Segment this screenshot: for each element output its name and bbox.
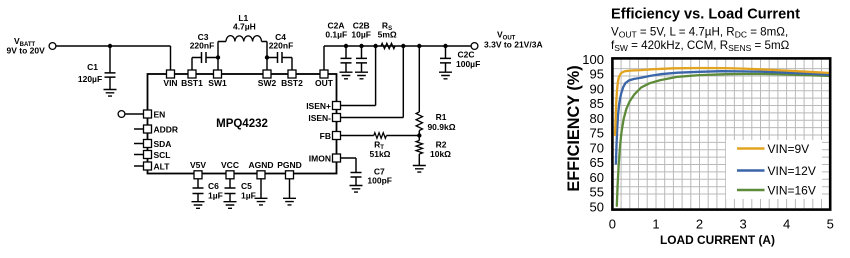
svg-text:9V to 20V: 9V to 20V	[7, 46, 46, 56]
svg-text:ISEN-: ISEN-	[308, 113, 331, 123]
svg-text:VIN=16V: VIN=16V	[768, 183, 816, 197]
svg-text:51kΩ: 51kΩ	[370, 149, 391, 159]
svg-text:0.1µF: 0.1µF	[325, 29, 347, 39]
svg-text:MPQ4232: MPQ4232	[216, 118, 268, 130]
svg-text:fSW = 420kHz, CCM, RSENS = 5mΩ: fSW = 420kHz, CCM, RSENS = 5mΩ	[611, 39, 790, 53]
svg-text:5mΩ: 5mΩ	[378, 29, 397, 39]
svg-text:EFFICIENCY (%): EFFICIENCY (%)	[565, 65, 583, 191]
svg-text:1µF: 1µF	[208, 191, 223, 201]
svg-text:220nF: 220nF	[269, 41, 294, 51]
svg-text:1: 1	[652, 217, 659, 232]
svg-text:10µF: 10µF	[351, 29, 371, 39]
svg-text:BST2: BST2	[281, 78, 303, 88]
svg-text:100µF: 100µF	[456, 59, 480, 69]
svg-text:90: 90	[590, 81, 604, 96]
svg-text:4: 4	[783, 217, 790, 232]
svg-text:75: 75	[590, 126, 604, 141]
svg-text:50: 50	[590, 199, 604, 214]
svg-text:120µF: 120µF	[78, 74, 102, 84]
svg-text:SW1: SW1	[208, 78, 227, 88]
svg-text:PGND: PGND	[277, 160, 302, 170]
svg-text:Efficiency vs. Load Current: Efficiency vs. Load Current	[611, 6, 800, 22]
svg-text:AGND: AGND	[248, 160, 273, 170]
svg-text:95: 95	[590, 67, 604, 82]
svg-text:SW2: SW2	[258, 78, 277, 88]
svg-text:OUT: OUT	[315, 78, 334, 88]
svg-text:ISEN+: ISEN+	[306, 101, 331, 111]
svg-text:10kΩ: 10kΩ	[430, 149, 451, 159]
svg-text:SDA: SDA	[154, 139, 172, 149]
svg-text:0: 0	[609, 217, 616, 232]
svg-text:EN: EN	[154, 109, 166, 119]
svg-text:70: 70	[590, 140, 604, 155]
svg-text:IMON: IMON	[309, 153, 331, 163]
svg-text:4.7µH: 4.7µH	[233, 22, 256, 32]
svg-text:FB: FB	[320, 131, 331, 141]
svg-text:R2: R2	[436, 139, 447, 149]
svg-text:C5: C5	[241, 181, 252, 191]
svg-text:VIN=9V: VIN=9V	[768, 142, 810, 156]
svg-text:VIN: VIN	[163, 78, 177, 88]
svg-text:85: 85	[590, 96, 604, 111]
svg-text:100: 100	[582, 52, 604, 67]
svg-text:VCC: VCC	[221, 160, 239, 170]
svg-text:C2C: C2C	[458, 50, 475, 60]
svg-text:100pF: 100pF	[367, 176, 392, 186]
svg-text:SCL: SCL	[154, 150, 171, 160]
svg-text:3.3V to 21V/3A: 3.3V to 21V/3A	[484, 39, 543, 49]
svg-text:3: 3	[739, 217, 746, 232]
svg-text:LOAD CURRENT (A): LOAD CURRENT (A)	[660, 233, 775, 247]
svg-text:VIN=12V: VIN=12V	[768, 164, 816, 178]
svg-text:V5V: V5V	[190, 160, 206, 170]
svg-text:1µF: 1µF	[241, 191, 256, 201]
svg-text:80: 80	[590, 111, 604, 126]
svg-text:ALT: ALT	[154, 161, 171, 171]
svg-text:65: 65	[590, 155, 604, 170]
svg-text:60: 60	[590, 170, 604, 185]
svg-text:90.9kΩ: 90.9kΩ	[427, 122, 455, 132]
svg-text:220nF: 220nF	[190, 41, 215, 51]
svg-text:55: 55	[590, 185, 604, 200]
svg-text:VOUT = 5V, L = 4.7µH, RDC = 8m: VOUT = 5V, L = 4.7µH, RDC = 8mΩ,	[611, 26, 788, 40]
svg-text:2: 2	[696, 217, 703, 232]
svg-text:BST1: BST1	[181, 78, 203, 88]
svg-text:ADDR: ADDR	[154, 124, 179, 134]
svg-text:C6: C6	[208, 181, 219, 191]
svg-text:5: 5	[827, 217, 834, 232]
svg-text:C1: C1	[87, 62, 98, 72]
svg-text:R1: R1	[436, 112, 447, 122]
